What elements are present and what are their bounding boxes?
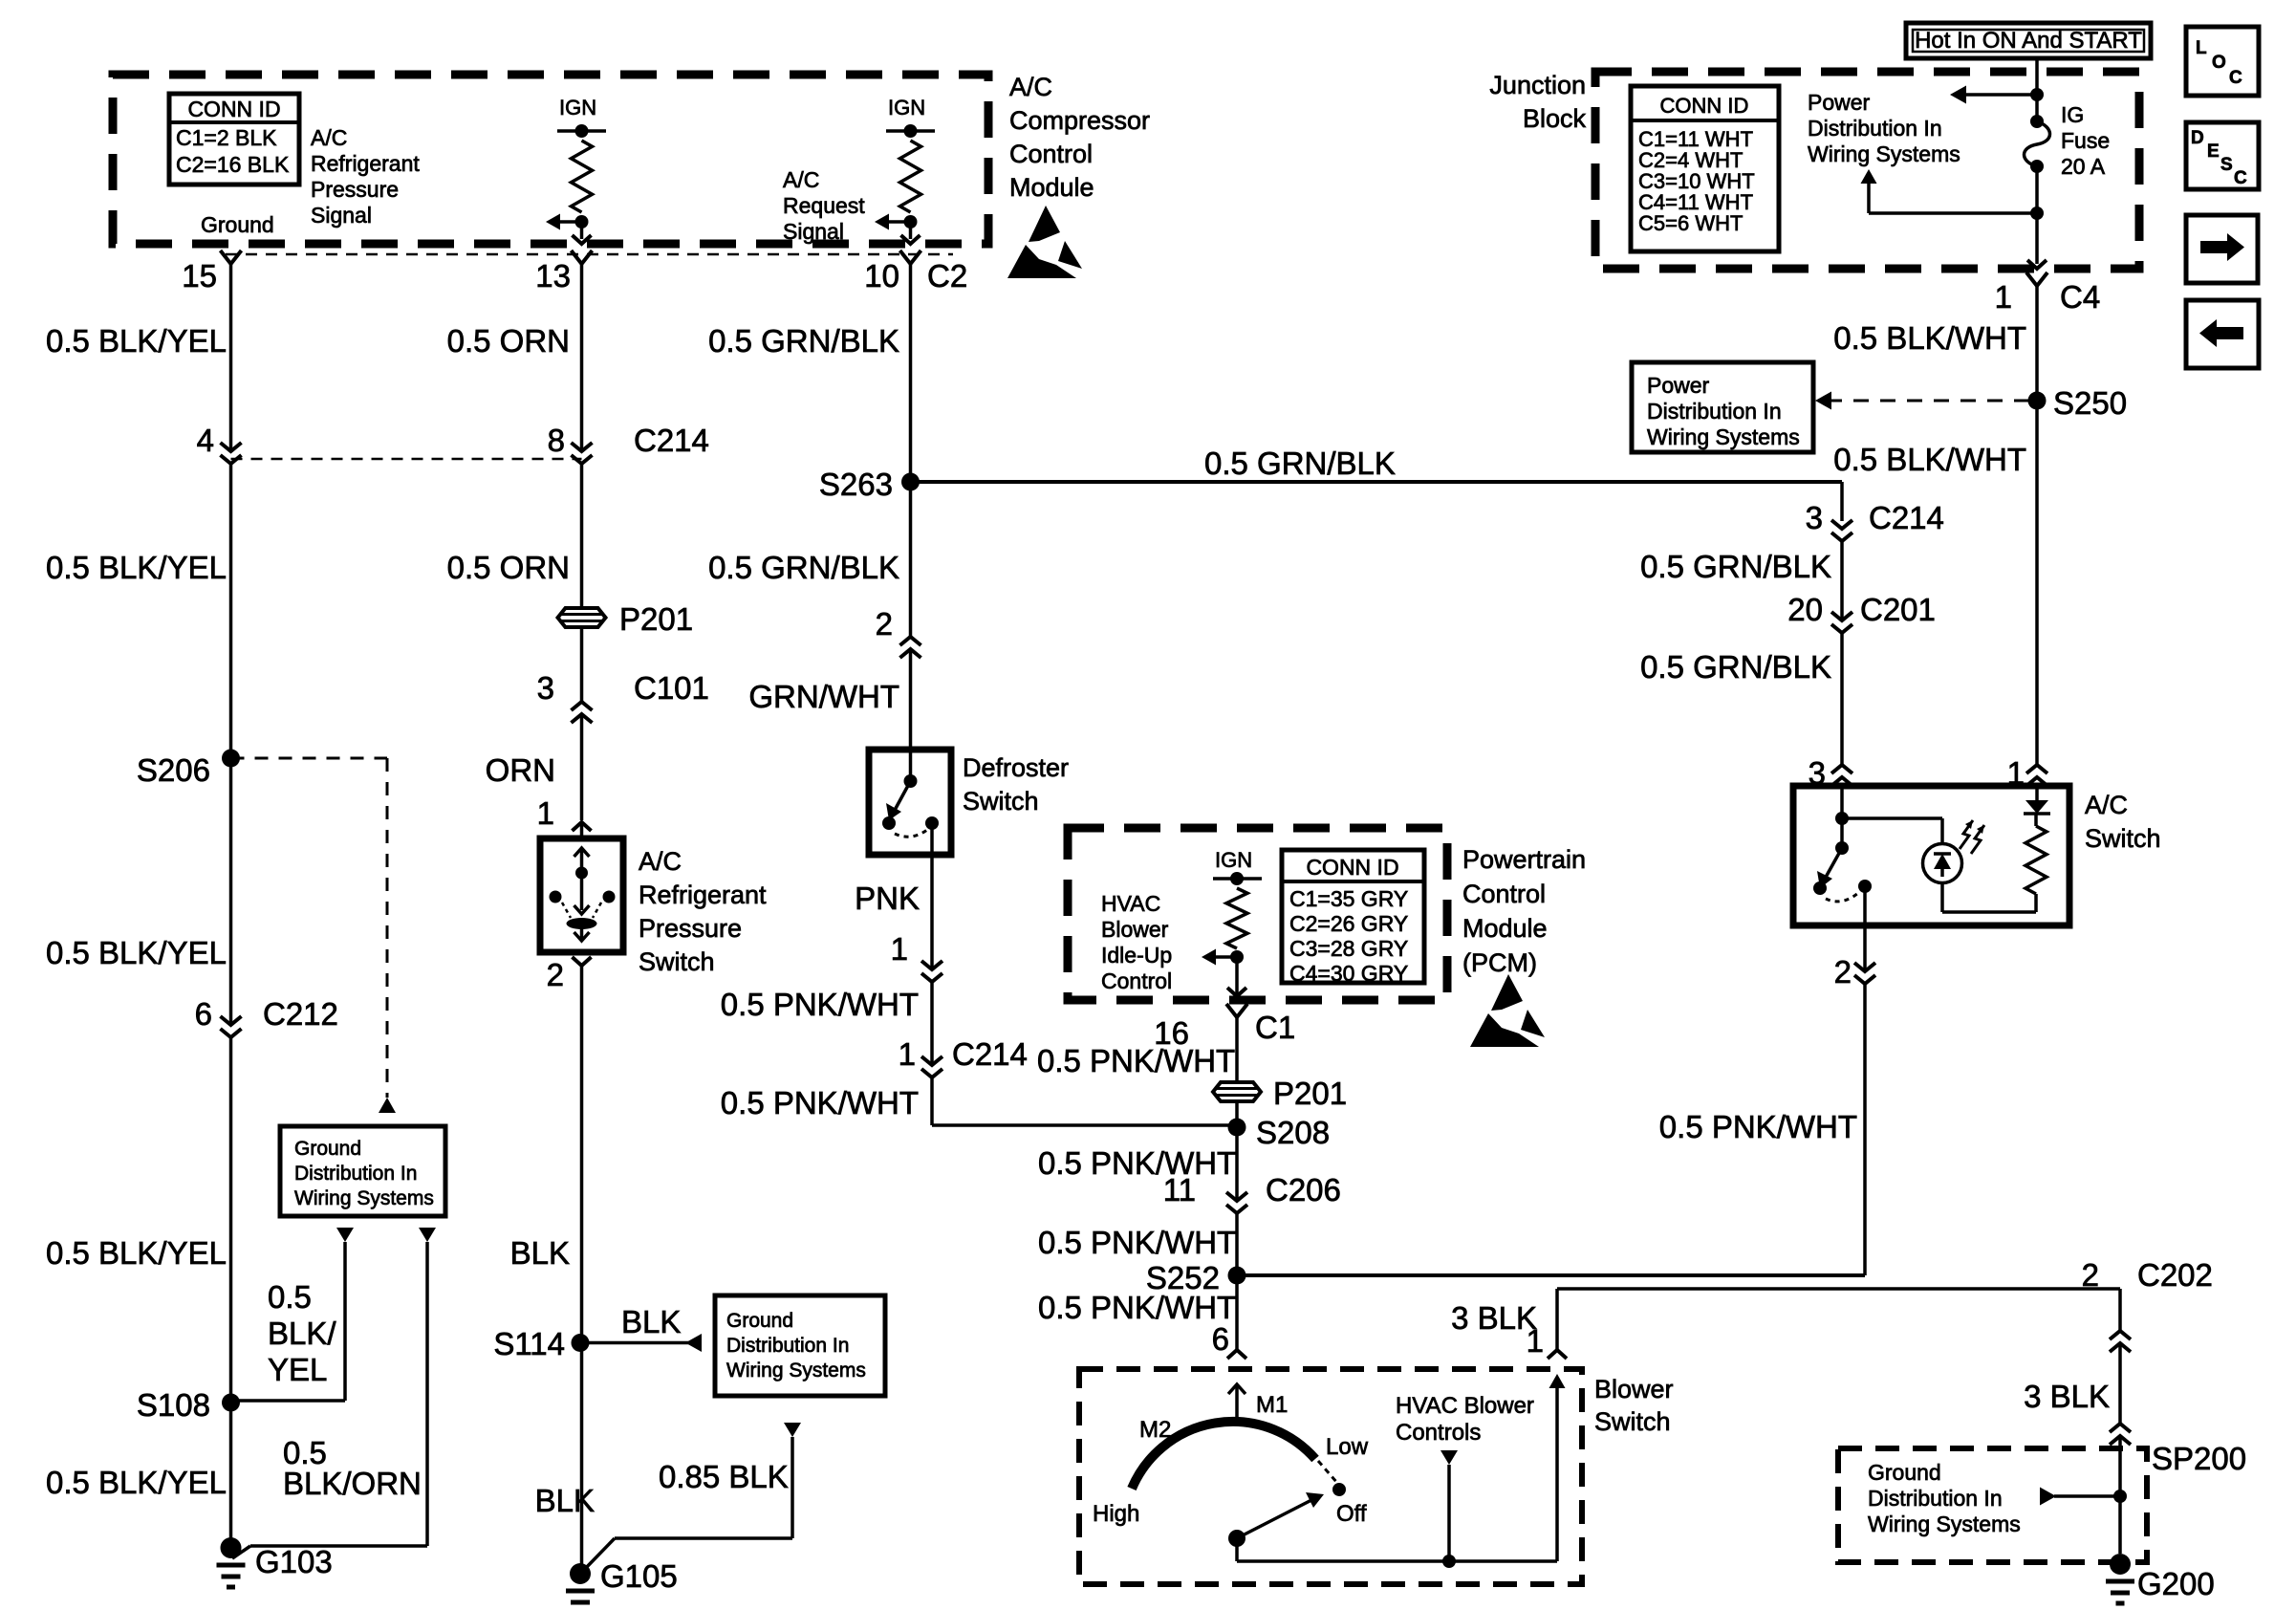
wire to C214-2 xyxy=(930,982,934,1064)
svg-text:0.5 BLK/YEL: 0.5 BLK/YEL xyxy=(46,550,227,585)
box1 left lead to S108 xyxy=(336,1228,354,1242)
svg-text:4: 4 xyxy=(197,423,214,458)
ground distribution box 1 xyxy=(280,1126,445,1216)
S114 BLK lead to ground box xyxy=(580,1341,702,1345)
S263 long wire right xyxy=(911,480,1843,484)
svg-text:BLK: BLK xyxy=(510,1235,570,1271)
svg-text:BLK: BLK xyxy=(621,1304,681,1339)
wire to S108 xyxy=(229,1037,233,1546)
pressure switch internals xyxy=(574,848,590,857)
svg-text:S250: S250 xyxy=(2053,385,2127,421)
S252 wire right to A/C switch pin 2 wire xyxy=(1237,1273,1865,1277)
Powertrain Control Module box (dashed) xyxy=(1068,828,1447,1000)
A/C Switch box xyxy=(1793,786,2069,925)
Power Distribution box (solid) xyxy=(1632,362,1813,452)
wire 13 to C214 xyxy=(580,264,584,450)
svg-text:Compressor: Compressor xyxy=(1009,106,1150,135)
LOC box xyxy=(2186,27,2259,96)
svg-text:P201: P201 xyxy=(619,601,693,637)
splice P201 xyxy=(558,608,606,627)
pivot and blade arrow xyxy=(1228,1530,1245,1547)
Blower Switch box (dashed) xyxy=(1079,1369,1582,1584)
svg-text:S206: S206 xyxy=(137,752,210,788)
svg-text:C201: C201 xyxy=(1860,592,1936,627)
wire from hot box xyxy=(2035,58,2039,121)
svg-text:0.5 GRN/BLK: 0.5 GRN/BLK xyxy=(1640,549,1831,584)
splice P201-2 xyxy=(1213,1082,1261,1101)
svg-text:2: 2 xyxy=(547,957,564,992)
box2 lead 0.85 BLK xyxy=(784,1423,801,1437)
svg-text:10: 10 xyxy=(864,258,899,294)
left wire into switch xyxy=(1840,786,1844,848)
svg-text:0.5 PNK/WHT: 0.5 PNK/WHT xyxy=(1037,1043,1235,1078)
svg-text:C3=28 GRY: C3=28 GRY xyxy=(1289,936,1408,961)
svg-text:0.5 BLK/WHT: 0.5 BLK/WHT xyxy=(1833,320,2026,356)
ground G103 xyxy=(221,1537,242,1558)
splice S250 xyxy=(2028,392,2047,410)
svg-text:Block: Block xyxy=(1523,104,1587,133)
wire defroster pin1 xyxy=(930,855,934,969)
svg-text:Distribution In: Distribution In xyxy=(294,1163,417,1185)
svg-text:C4=30 GRY: C4=30 GRY xyxy=(1289,961,1408,986)
svg-text:C214: C214 xyxy=(1869,500,1944,535)
wire to S206 xyxy=(229,464,233,1024)
svg-text:CONN ID: CONN ID xyxy=(1306,855,1398,880)
GRN/BLK corner down xyxy=(1840,482,1844,521)
S206 dashed branch xyxy=(231,757,388,760)
svg-text:Wiring Systems: Wiring Systems xyxy=(294,1187,434,1209)
IG fuse xyxy=(2030,115,2044,128)
svg-text:S208: S208 xyxy=(1256,1115,1330,1150)
svg-text:Ground: Ground xyxy=(726,1310,793,1332)
svg-text:Controls: Controls xyxy=(1396,1420,1481,1446)
svg-text:C206: C206 xyxy=(1266,1172,1341,1207)
svg-text:SP200: SP200 xyxy=(2152,1441,2246,1476)
svg-text:Wiring Systems: Wiring Systems xyxy=(1808,141,1960,166)
wire to P201-2 xyxy=(1235,1017,1239,1082)
defroster internals xyxy=(904,774,918,788)
svg-text:Ground: Ground xyxy=(1868,1460,1941,1485)
Hot In ON And START box xyxy=(1906,23,2151,58)
LED lightning arrows xyxy=(1960,820,1973,849)
svg-text:0.5: 0.5 xyxy=(268,1279,312,1315)
svg-text:O: O xyxy=(2212,53,2226,73)
forward arrow box xyxy=(2186,215,2258,283)
wire to C101 xyxy=(580,627,584,702)
ESD symbol (module) xyxy=(1029,206,1060,242)
svg-text:Refrigerant: Refrigerant xyxy=(311,151,420,176)
svg-text:2: 2 xyxy=(876,606,893,642)
M1 arrow inside xyxy=(1235,1384,1239,1419)
splice S208 xyxy=(1228,1119,1246,1137)
svg-text:0.5 GRN/BLK: 0.5 GRN/BLK xyxy=(708,323,899,359)
svg-text:Defroster: Defroster xyxy=(963,753,1069,782)
svg-text:13: 13 xyxy=(535,258,571,294)
svg-text:2: 2 xyxy=(2082,1257,2099,1293)
splice S252 xyxy=(1228,1267,1246,1285)
svg-text:0.5 PNK/WHT: 0.5 PNK/WHT xyxy=(721,1085,919,1120)
svg-text:G200: G200 xyxy=(2137,1566,2215,1601)
A/C Compressor Control Module box (dashed) xyxy=(113,75,988,244)
svg-text:0.5 ORN: 0.5 ORN xyxy=(447,323,570,359)
svg-text:Hot In ON And START: Hot In ON And START xyxy=(1915,28,2142,54)
svg-text:S263: S263 xyxy=(819,467,893,502)
wire to corner and S208 xyxy=(930,1077,934,1125)
junction up arrow to label xyxy=(2030,207,2044,220)
svg-text:Request: Request xyxy=(783,193,865,218)
svg-text:Refrigerant: Refrigerant xyxy=(639,881,767,909)
wire 10 to S263 xyxy=(909,264,913,637)
svg-text:Off: Off xyxy=(1336,1501,1367,1527)
junction arrow left from wire xyxy=(2030,88,2044,101)
svg-text:20: 20 xyxy=(1787,592,1823,627)
LED branch xyxy=(1842,816,1942,820)
svg-text:G103: G103 xyxy=(255,1544,333,1579)
svg-text:C4: C4 xyxy=(2060,279,2100,315)
svg-text:Wiring Systems: Wiring Systems xyxy=(1647,424,1800,449)
svg-text:A/C: A/C xyxy=(2085,791,2128,819)
resistor in switch xyxy=(2034,814,2038,826)
dashed arc Low to Off xyxy=(1318,1461,1337,1483)
svg-text:BLK/ORN: BLK/ORN xyxy=(283,1466,422,1501)
wire to S114 xyxy=(580,966,584,1569)
svg-text:A/C: A/C xyxy=(1009,73,1052,101)
svg-text:C101: C101 xyxy=(634,670,709,706)
svg-text:0.5 BLK/YEL: 0.5 BLK/YEL xyxy=(46,935,227,970)
svg-text:Blower: Blower xyxy=(1101,917,1169,942)
svg-text:BLK: BLK xyxy=(535,1483,595,1518)
svg-text:Ground: Ground xyxy=(201,212,274,237)
svg-text:6: 6 xyxy=(195,996,212,1032)
svg-text:3: 3 xyxy=(537,670,554,706)
wire to S252 xyxy=(1235,1213,1239,1350)
svg-text:6: 6 xyxy=(1212,1321,1229,1357)
svg-text:E: E xyxy=(2207,141,2220,162)
svg-text:Switch: Switch xyxy=(1594,1407,1671,1436)
svg-text:HVAC: HVAC xyxy=(1101,891,1160,916)
svg-text:Distribution In: Distribution In xyxy=(1868,1486,2003,1511)
svg-text:Idle-Up: Idle-Up xyxy=(1101,943,1172,968)
svg-text:C214: C214 xyxy=(952,1036,1028,1072)
svg-text:S114: S114 xyxy=(493,1326,565,1361)
svg-text:C2: C2 xyxy=(927,258,967,294)
SP200 ground distribution box (dashed) xyxy=(1838,1448,2147,1562)
svg-text:Module: Module xyxy=(1462,914,1548,943)
svg-text:IGN: IGN xyxy=(1215,848,1252,872)
PCM CONN ID table xyxy=(1282,850,1424,983)
svg-text:ORN: ORN xyxy=(486,752,555,788)
svg-text:M2: M2 xyxy=(1139,1417,1171,1443)
svg-text:IGN: IGN xyxy=(559,96,596,120)
box1 right lead (0.5 BLK/ORN) xyxy=(419,1228,436,1242)
svg-text:Control: Control xyxy=(1101,968,1172,993)
svg-text:Module: Module xyxy=(1009,173,1094,202)
svg-text:3: 3 xyxy=(1806,500,1823,535)
svg-text:PNK: PNK xyxy=(855,881,920,916)
svg-text:Pressure: Pressure xyxy=(639,914,742,943)
wire down to C4 xyxy=(2035,166,2039,264)
junction CONN ID table xyxy=(1631,86,1779,251)
3 BLK wire to C202 xyxy=(1557,1287,2120,1291)
svg-text:0.5 PNK/WHT: 0.5 PNK/WHT xyxy=(1659,1109,1857,1144)
svg-text:Blower: Blower xyxy=(1594,1375,1674,1403)
svg-text:(PCM): (PCM) xyxy=(1462,948,1537,977)
svg-text:20 A: 20 A xyxy=(2061,154,2106,179)
svg-text:D: D xyxy=(2191,128,2204,148)
arrow right to wire xyxy=(2040,1488,2056,1506)
svg-text:Wiring Systems: Wiring Systems xyxy=(1868,1512,2021,1536)
A/C Refrigerant Pressure Switch box xyxy=(540,838,623,952)
svg-text:8: 8 xyxy=(548,423,565,458)
svg-text:YEL: YEL xyxy=(268,1352,327,1387)
svg-text:1: 1 xyxy=(1995,279,2012,315)
Off contact dot xyxy=(1332,1483,1346,1496)
LED to resistor path xyxy=(1940,882,1944,912)
module CONN ID table xyxy=(169,94,299,185)
svg-text:C212: C212 xyxy=(263,996,338,1032)
wire to G200 xyxy=(2118,1496,2122,1554)
svg-text:1: 1 xyxy=(899,1036,916,1072)
svg-text:C2=26 GRY: C2=26 GRY xyxy=(1289,911,1408,936)
back arrow box xyxy=(2186,300,2259,368)
svg-text:0.5 PNK/WHT: 0.5 PNK/WHT xyxy=(1038,1145,1236,1181)
svg-text:C2=16 BLK: C2=16 BLK xyxy=(176,152,290,177)
wire to defroster switch xyxy=(909,649,913,750)
svg-text:0.5 PNK/WHT: 0.5 PNK/WHT xyxy=(1038,1290,1236,1325)
svg-text:S108: S108 xyxy=(137,1387,210,1423)
dashed connector line C214 xyxy=(231,458,582,461)
svg-text:1: 1 xyxy=(891,931,908,967)
switch blade xyxy=(1824,848,1842,881)
svg-text:Ground: Ground xyxy=(294,1138,361,1160)
selector arc xyxy=(1132,1422,1315,1489)
wire to pressure switch xyxy=(580,714,584,820)
svg-text:L: L xyxy=(2196,38,2207,58)
svg-text:0.5 PNK/WHT: 0.5 PNK/WHT xyxy=(1038,1225,1236,1260)
svg-text:Distribution In: Distribution In xyxy=(1808,116,1942,141)
svg-text:C1: C1 xyxy=(1255,1010,1295,1045)
svg-text:0.5 GRN/BLK: 0.5 GRN/BLK xyxy=(1640,649,1831,685)
svg-text:2: 2 xyxy=(1834,954,1852,990)
svg-text:C1=35 GRY: C1=35 GRY xyxy=(1289,886,1408,911)
ground G105 xyxy=(570,1563,591,1584)
svg-text:1: 1 xyxy=(537,795,554,831)
svg-text:A/C: A/C xyxy=(639,847,682,876)
svg-text:Low: Low xyxy=(1326,1434,1369,1460)
svg-text:3 BLK: 3 BLK xyxy=(2024,1379,2110,1414)
svg-text:C214: C214 xyxy=(634,423,709,458)
DESC box xyxy=(2186,122,2259,189)
svg-text:11: 11 xyxy=(1163,1172,1196,1207)
svg-text:C: C xyxy=(2229,68,2242,88)
ESD symbol (PCM) xyxy=(1491,974,1523,1011)
svg-text:Control: Control xyxy=(1462,880,1546,908)
svg-text:P201: P201 xyxy=(1273,1076,1347,1111)
svg-text:HVAC Blower: HVAC Blower xyxy=(1396,1393,1534,1419)
svg-text:Fuse: Fuse xyxy=(2061,128,2110,153)
svg-text:0.5 BLK/WHT: 0.5 BLK/WHT xyxy=(1833,442,2026,477)
svg-text:Wiring Systems: Wiring Systems xyxy=(726,1360,866,1382)
svg-text:A/C: A/C xyxy=(311,125,347,150)
svg-text:Pressure: Pressure xyxy=(311,177,399,202)
svg-text:Signal: Signal xyxy=(783,219,844,244)
svg-text:0.5 GRN/BLK: 0.5 GRN/BLK xyxy=(708,550,899,585)
svg-text:M1: M1 xyxy=(1256,1392,1288,1418)
svg-text:C1=2 BLK: C1=2 BLK xyxy=(176,125,277,150)
svg-text:C: C xyxy=(2234,168,2247,188)
svg-text:3 BLK: 3 BLK xyxy=(1451,1300,1537,1336)
svg-text:0.5 GRN/BLK: 0.5 GRN/BLK xyxy=(1204,446,1396,481)
svg-text:0.5 BLK/YEL: 0.5 BLK/YEL xyxy=(46,1235,227,1271)
svg-text:IGN: IGN xyxy=(888,96,925,120)
svg-text:0.5 PNK/WHT: 0.5 PNK/WHT xyxy=(721,987,919,1022)
svg-text:C202: C202 xyxy=(2137,1257,2213,1293)
connector SP200 xyxy=(2110,1424,2131,1432)
svg-text:Distribution In: Distribution In xyxy=(726,1335,849,1357)
svg-text:Signal: Signal xyxy=(311,203,372,228)
wire 15 to connector 4 xyxy=(229,264,233,450)
svg-text:0.5 BLK/YEL: 0.5 BLK/YEL xyxy=(46,1465,227,1500)
svg-text:CONN ID: CONN ID xyxy=(1660,94,1749,118)
switch pin 2 wire xyxy=(1863,886,1867,971)
svg-text:S: S xyxy=(2220,155,2233,175)
svg-text:Control: Control xyxy=(1009,140,1093,168)
svg-text:IG: IG xyxy=(2061,102,2084,127)
svg-text:0.5 ORN: 0.5 ORN xyxy=(447,550,570,585)
ground distribution box 2 xyxy=(715,1295,885,1396)
svg-text:High: High xyxy=(1093,1501,1139,1527)
svg-text:15: 15 xyxy=(182,258,217,294)
svg-text:Switch: Switch xyxy=(639,947,715,976)
svg-text:Distribution In: Distribution In xyxy=(1647,399,1782,424)
ground G200 xyxy=(2110,1554,2131,1575)
svg-text:Power: Power xyxy=(1647,373,1710,398)
svg-text:Junction: Junction xyxy=(1489,71,1586,99)
pivot to pin1 path xyxy=(1235,1538,1239,1561)
module pin dashed line xyxy=(226,253,953,256)
svg-text:0.85 BLK: 0.85 BLK xyxy=(659,1459,789,1494)
dashed lead S250 to box xyxy=(1827,400,2033,402)
svg-text:Switch: Switch xyxy=(2085,824,2161,853)
svg-text:Switch: Switch xyxy=(963,787,1039,816)
svg-text:Power: Power xyxy=(1808,90,1871,115)
svg-text:GRN/WHT: GRN/WHT xyxy=(748,679,899,714)
svg-text:Powertrain: Powertrain xyxy=(1462,845,1586,874)
diode xyxy=(2035,786,2039,800)
svg-text:A/C: A/C xyxy=(783,167,819,192)
Defroster Switch box xyxy=(869,750,951,855)
wire to P201 xyxy=(580,464,584,608)
svg-text:CONN ID: CONN ID xyxy=(187,97,280,121)
Junction Block box (dashed) xyxy=(1595,72,2139,269)
svg-text:C5=6 WHT: C5=6 WHT xyxy=(1638,211,1743,235)
svg-text:G105: G105 xyxy=(600,1558,678,1594)
svg-text:0.5 BLK/YEL: 0.5 BLK/YEL xyxy=(46,323,227,359)
svg-text:BLK/: BLK/ xyxy=(268,1316,336,1351)
